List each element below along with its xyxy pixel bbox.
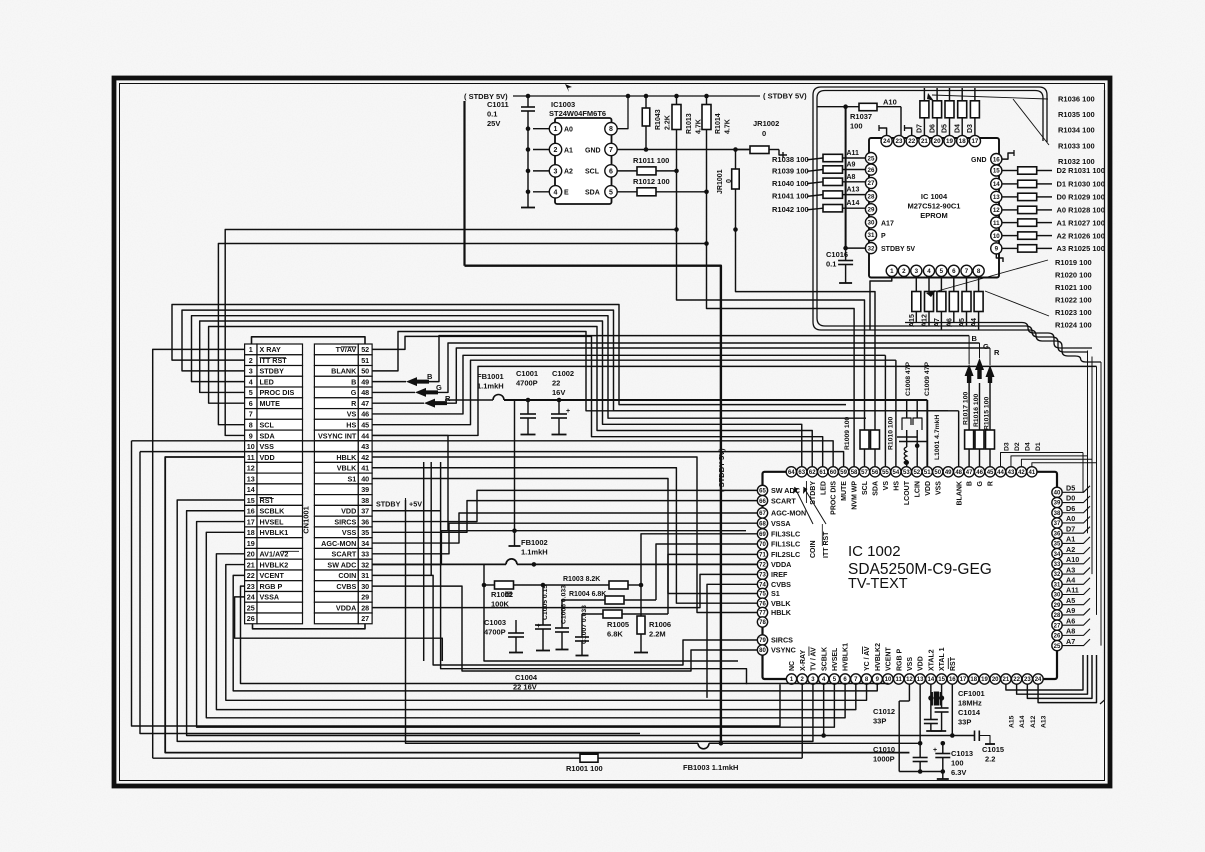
pin IC1004-5 <box>936 265 947 276</box>
svg-text:D2: D2 <box>1014 442 1021 451</box>
svg-text:G: G <box>977 480 984 486</box>
pin IC1002-57 <box>859 467 869 477</box>
svg-text:26: 26 <box>1054 634 1061 640</box>
pin IC1002-78 <box>757 617 767 627</box>
svg-text:C1015: C1015 <box>982 745 1004 754</box>
svg-text:58: 58 <box>851 470 858 476</box>
pin IC1002-36 <box>1052 528 1062 538</box>
wire row34 AGC-MON to pin67 <box>372 513 757 543</box>
pin IC1004-18 <box>957 135 968 146</box>
pin IC1003-2 <box>549 143 561 155</box>
svg-text:5: 5 <box>249 388 253 397</box>
svg-text:24: 24 <box>1035 677 1042 683</box>
svg-text:44: 44 <box>361 431 369 440</box>
svg-text:4700P: 4700P <box>516 379 538 388</box>
pin IC1004-17 <box>969 135 980 146</box>
pin IC1002-49 <box>943 467 953 477</box>
svg-text:C1002: C1002 <box>552 369 574 378</box>
svg-text:VCENT: VCENT <box>886 647 893 671</box>
svg-text:TV-TEXT: TV-TEXT <box>848 576 908 592</box>
pin IC1002-56 <box>870 467 880 477</box>
resistor EPROM bottom (net A4) <box>978 276 980 291</box>
svg-text:12: 12 <box>906 677 913 683</box>
pin IC1002-23 <box>1022 674 1032 684</box>
resistor R1037 <box>817 106 859 108</box>
svg-text:R1017 100: R1017 100 <box>962 392 969 425</box>
svg-text:VSSA: VSSA <box>260 593 280 602</box>
svg-text:30: 30 <box>868 220 875 227</box>
resistor EPROM address A9 <box>823 166 843 173</box>
wire CN row1 X RAY long loop <box>153 349 245 758</box>
svg-text:FIL2SLC: FIL2SLC <box>771 550 800 559</box>
resistor R1025 <box>1002 247 1018 249</box>
pin IC1004-1 <box>886 265 897 276</box>
svg-text:24: 24 <box>247 593 255 602</box>
pin IC1002-29 <box>1052 600 1062 610</box>
svg-text:HBLK: HBLK <box>336 453 357 462</box>
svg-text:100: 100 <box>850 122 863 131</box>
svg-text:25V: 25V <box>487 119 500 128</box>
svg-text:COIN: COIN <box>338 571 356 580</box>
wire CN row8 SCL up <box>218 244 706 425</box>
pin IC1002-50 <box>933 467 943 477</box>
jumper JR1001 <box>735 150 737 170</box>
net STDBY 5V rail <box>513 95 760 97</box>
svg-text:25: 25 <box>1054 644 1061 650</box>
svg-text:A3 R1025 100: A3 R1025 100 <box>1057 244 1105 253</box>
resistor R1029 <box>1002 196 1018 198</box>
label net flag A2 at pin 34 <box>1062 547 1090 554</box>
svg-text:A7: A7 <box>1066 637 1075 646</box>
svg-text:69: 69 <box>759 532 766 538</box>
pin IC1002-48 <box>954 467 964 477</box>
svg-text:A11: A11 <box>847 150 860 157</box>
svg-text:FIL3SLC: FIL3SLC <box>771 530 800 539</box>
svg-text:6: 6 <box>952 268 956 275</box>
pin IC1003-3 <box>549 165 561 177</box>
svg-text:XTAL2: XTAL2 <box>928 649 935 671</box>
svg-text:STDBY 5V: STDBY 5V <box>881 246 915 253</box>
resistor EPROM bottom (net A6) <box>953 276 955 291</box>
svg-text:2.2: 2.2 <box>985 755 995 764</box>
svg-text:A9: A9 <box>847 162 856 169</box>
svg-text:40: 40 <box>1054 490 1061 496</box>
pin IC1004-25 <box>865 153 876 164</box>
pin IC1002-40 <box>1052 487 1062 497</box>
svg-text:R: R <box>445 394 451 403</box>
svg-text:B: B <box>972 334 978 343</box>
svg-text:SIRCS: SIRCS <box>334 517 356 526</box>
pin IC1002-25 <box>1052 640 1062 650</box>
svg-text:HVBLK1: HVBLK1 <box>843 643 850 671</box>
pin IC1002-24 <box>1033 674 1043 684</box>
svg-text:VSS: VSS <box>935 481 942 495</box>
wire IC1004 pin1 down to loop <box>870 276 892 330</box>
svg-text:AGC-MON: AGC-MON <box>771 509 806 518</box>
svg-text:36: 36 <box>1054 531 1061 537</box>
wire STDBY +5V drops <box>406 500 408 743</box>
svg-text:R1016 100: R1016 100 <box>973 394 980 427</box>
pin IC1002-35 <box>1052 538 1062 548</box>
svg-text:32: 32 <box>868 245 875 252</box>
pin IC1002-53 <box>901 467 911 477</box>
node C1011 bus dots <box>526 126 531 131</box>
svg-text:B: B <box>967 481 974 486</box>
svg-text:31: 31 <box>361 571 369 580</box>
pin IC1004-30 <box>865 217 876 228</box>
svg-text:27: 27 <box>868 180 875 187</box>
pin IC1002-62 <box>807 467 817 477</box>
wire pin22 NC hook <box>905 128 912 136</box>
wire SDA from IC1003 down <box>707 192 855 467</box>
pin IC1002-22 <box>1011 674 1021 684</box>
svg-text:VS: VS <box>347 410 357 419</box>
svg-text:26: 26 <box>868 167 875 174</box>
capacitor C1014 on XTAL1 <box>935 707 949 709</box>
svg-text:37: 37 <box>1054 521 1061 527</box>
resistor EPROM bottom (net A7) <box>940 276 942 291</box>
resistor R1001 <box>153 757 580 759</box>
svg-text:A1 R1027 100: A1 R1027 100 <box>1057 218 1105 227</box>
arrow net R at CN pin47 <box>372 402 424 404</box>
pin IC1004-19 <box>944 135 955 146</box>
pin IC1002-6 <box>840 674 850 684</box>
svg-text:52: 52 <box>361 345 369 354</box>
pin IC1002-74 <box>757 579 767 589</box>
svg-text:33P: 33P <box>873 717 886 726</box>
svg-text:46: 46 <box>361 410 369 419</box>
svg-text:49: 49 <box>945 470 952 476</box>
svg-text:14: 14 <box>993 181 1000 188</box>
overline YC/AV pin8 <box>862 647 864 655</box>
pin IC1002-69 <box>757 529 767 539</box>
svg-text:15: 15 <box>247 496 255 505</box>
wire IC1003 pin7 GND line <box>618 149 750 151</box>
svg-text:D4: D4 <box>954 124 961 133</box>
svg-text:11: 11 <box>247 453 255 462</box>
svg-text:78: 78 <box>759 620 766 626</box>
svg-text:3: 3 <box>249 367 253 376</box>
svg-text:SCART: SCART <box>332 550 357 559</box>
svg-text:80: 80 <box>759 648 766 654</box>
svg-text:ITT RST: ITT RST <box>823 531 830 558</box>
IC U IC1002 body <box>763 472 1058 679</box>
svg-text:( STDBY 5V): ( STDBY 5V) <box>763 92 807 101</box>
svg-text:D1: D1 <box>1035 442 1042 451</box>
svg-text:36: 36 <box>361 517 369 526</box>
capacitor C1011 <box>527 96 529 107</box>
svg-text:D3: D3 <box>967 124 974 133</box>
resistor R1016 <box>975 430 984 449</box>
svg-text:VSYNC: VSYNC <box>771 646 796 655</box>
svg-text:PROC DIS: PROC DIS <box>260 388 295 397</box>
svg-text:2: 2 <box>249 356 253 365</box>
svg-text:21: 21 <box>1003 677 1010 683</box>
pin IC1004-26 <box>865 164 876 175</box>
svg-text:65: 65 <box>759 489 766 495</box>
svg-text:R: R <box>351 399 357 408</box>
wire IC1003 pin8 to rail <box>618 96 629 129</box>
svg-text:PROC DIS: PROC DIS <box>831 481 838 515</box>
svg-text:A2: A2 <box>564 169 573 176</box>
svg-text:A10: A10 <box>1066 555 1079 564</box>
ground mark small <box>505 592 512 597</box>
pin IC1002-1 <box>786 674 796 684</box>
wire bottom resistor collector <box>905 323 1092 349</box>
resistor R1027 <box>1002 222 1018 224</box>
svg-text:C1014: C1014 <box>958 708 981 717</box>
svg-text:BLANK: BLANK <box>956 481 963 506</box>
resistor EPROM bottom (net A12) <box>928 276 930 291</box>
svg-text:22: 22 <box>247 571 255 580</box>
svg-text:72: 72 <box>759 563 766 569</box>
svg-text:18: 18 <box>970 677 977 683</box>
svg-text:A9: A9 <box>1066 606 1075 615</box>
pin IC1004-32 <box>865 243 876 254</box>
svg-text:S1: S1 <box>771 589 780 598</box>
pin IC1004-15 <box>991 165 1002 176</box>
svg-text:7: 7 <box>965 268 969 275</box>
svg-text:6: 6 <box>609 168 613 175</box>
arrow net B up <box>968 383 970 430</box>
pin IC1004-24 <box>881 135 892 146</box>
svg-text:57: 57 <box>861 470 868 476</box>
svg-text:EPROM: EPROM <box>920 211 948 220</box>
svg-text:29: 29 <box>868 207 875 214</box>
svg-text:R1043: R1043 <box>655 109 662 130</box>
pin IC1002-7 <box>851 674 861 684</box>
svg-text:35: 35 <box>361 528 369 537</box>
svg-text:SDA: SDA <box>873 481 880 496</box>
svg-text:B: B <box>427 372 433 381</box>
svg-text:XTAL 1: XTAL 1 <box>939 647 946 671</box>
svg-text:HS: HS <box>346 421 356 430</box>
svg-text:71: 71 <box>759 553 766 559</box>
svg-text:IC1003: IC1003 <box>551 100 575 109</box>
pin IC1002-52 <box>912 467 922 477</box>
svg-text:A15: A15 <box>1008 715 1015 728</box>
svg-text:32: 32 <box>1054 572 1061 578</box>
svg-text:43: 43 <box>361 442 369 451</box>
svg-text:30: 30 <box>361 582 369 591</box>
label net flag D7 at pin 36 <box>1062 527 1090 534</box>
arrow net G at CN pin48 <box>372 391 415 393</box>
svg-text:R1003 8.2K: R1003 8.2K <box>563 576 600 583</box>
op-amp/IC U IC1003 body <box>555 118 612 204</box>
wire bus row50 BLANK <box>372 332 958 411</box>
pin IC1002-5 <box>829 674 839 684</box>
svg-text:LED: LED <box>260 377 274 386</box>
svg-text:2: 2 <box>902 268 906 275</box>
resistor R1035 (net D6) <box>936 88 938 101</box>
pin IC1002-19 <box>979 674 989 684</box>
svg-text:18: 18 <box>247 528 255 537</box>
wire VSS pin12 down <box>908 684 910 701</box>
svg-text:STDBY: STDBY <box>376 500 401 509</box>
svg-text:67: 67 <box>759 511 766 517</box>
svg-text:STDBY: STDBY <box>260 367 285 376</box>
pin IC1002-26 <box>1052 630 1062 640</box>
connector CN1001 left column cells <box>245 344 303 624</box>
svg-text:46: 46 <box>976 470 983 476</box>
capacitor C1001 <box>526 398 531 403</box>
wire row30 CVBS to pin80 <box>372 586 757 671</box>
svg-text:NC: NC <box>789 661 796 671</box>
wire thick STDBY to bottom <box>465 266 721 742</box>
capacitor LC plates <box>897 436 917 438</box>
svg-text:RST: RST <box>950 656 957 671</box>
pin IC1002-46 <box>974 467 984 477</box>
capacitor C1012 on XTAL2 <box>924 719 938 721</box>
svg-text:R1033 100: R1033 100 <box>1058 141 1095 150</box>
svg-text:23: 23 <box>247 582 255 591</box>
svg-text:SW ADC: SW ADC <box>327 560 356 569</box>
svg-text:LED: LED <box>820 481 827 495</box>
pin IC1002-70 <box>757 539 767 549</box>
overline STDBY pin62 <box>805 481 807 503</box>
svg-text:R1024 100: R1024 100 <box>1055 320 1092 329</box>
capacitor C1002 (polarized) <box>557 398 562 403</box>
svg-text:C1001: C1001 <box>516 369 538 378</box>
svg-text:R1019 100: R1019 100 <box>1055 258 1092 267</box>
svg-text:+: + <box>933 747 937 754</box>
svg-text:A4: A4 <box>1066 575 1075 584</box>
resistor EPROM address A13 <box>823 191 843 198</box>
arrow net R up <box>989 383 991 430</box>
pin IC1002-51 <box>922 467 932 477</box>
svg-text:AGC-MON: AGC-MON <box>321 539 356 548</box>
arrow mark top center <box>565 84 572 92</box>
wire row31 COIN to pin79 <box>372 575 757 665</box>
svg-text:A8: A8 <box>1066 627 1075 636</box>
svg-text:9: 9 <box>995 246 999 253</box>
resistor R1031 <box>1002 170 1018 172</box>
wire bus CN rows 15-23 bottom nest <box>177 500 813 741</box>
resistor bank R1038-R1042 stub diagonals <box>807 158 823 160</box>
resistor R1017 <box>965 430 974 449</box>
svg-text:50: 50 <box>361 367 369 376</box>
svg-text:R1006: R1006 <box>649 620 671 629</box>
svg-text:R1036 100: R1036 100 <box>1058 95 1095 104</box>
svg-text:VDD: VDD <box>925 481 932 496</box>
wire bus CN rows 2-6 up-over nest <box>172 305 846 405</box>
svg-text:8: 8 <box>249 421 253 430</box>
svg-text:TV / AV: TV / AV <box>811 647 818 671</box>
label net flag A4 at pin 31 <box>1062 578 1090 585</box>
svg-text:C1006 0.033: C1006 0.033 <box>561 585 568 624</box>
resistor R1014 <box>706 96 708 108</box>
svg-text:56: 56 <box>872 470 879 476</box>
pin IC1002-80 <box>757 645 767 655</box>
svg-text:63: 63 <box>798 470 805 476</box>
wire VDDA thick to pin72 <box>372 563 506 565</box>
svg-text:20: 20 <box>247 550 255 559</box>
svg-text:18: 18 <box>959 138 966 145</box>
svg-text:25: 25 <box>868 155 875 162</box>
wire net B from CN to right loop <box>429 336 969 382</box>
label net flag A5 at pin 29 <box>1062 598 1090 605</box>
capacitor C1003 <box>515 627 517 633</box>
pin IC1002-44 <box>995 467 1005 477</box>
pin IC1002-31 <box>1052 579 1062 589</box>
pin IC1003-5 <box>605 186 617 198</box>
svg-text:D7: D7 <box>917 124 924 133</box>
svg-text:10: 10 <box>993 233 1000 240</box>
wire pin16 NC hook <box>1002 153 1014 159</box>
pin IC1002-41 <box>1027 467 1037 477</box>
svg-text:15: 15 <box>938 677 945 683</box>
svg-text:29: 29 <box>1054 603 1061 609</box>
svg-text:R1022 100: R1022 100 <box>1055 295 1092 304</box>
svg-text:FB1003 1.1mkH: FB1003 1.1mkH <box>683 763 738 772</box>
svg-text:HVBLK2: HVBLK2 <box>260 560 289 569</box>
resistor R1015 <box>986 430 995 449</box>
pin IC1002-75 <box>757 588 767 598</box>
svg-text:16: 16 <box>247 507 255 516</box>
svg-text:42: 42 <box>1018 470 1025 476</box>
svg-text:19: 19 <box>981 677 988 683</box>
svg-text:2: 2 <box>554 147 558 154</box>
label net flag A8 at pin 26 <box>1062 629 1090 636</box>
svg-text:A1: A1 <box>564 147 573 154</box>
resistor R1043 <box>645 96 647 108</box>
wire loop around IC1004 outer <box>813 87 1101 362</box>
resistor R1004 <box>562 599 605 601</box>
svg-text:33P: 33P <box>958 718 971 727</box>
svg-text:VBLK: VBLK <box>771 599 791 608</box>
label net flag A10 at pin 33 <box>1062 557 1090 564</box>
svg-text:R1011 100: R1011 100 <box>633 156 669 165</box>
pin IC1004-6 <box>948 265 959 276</box>
svg-text:MUTE: MUTE <box>260 399 281 408</box>
svg-text:23: 23 <box>1024 677 1031 683</box>
label net flag A6 at pin 27 <box>1062 619 1090 626</box>
svg-text:YC / AV: YC / AV <box>864 646 871 671</box>
pin IC1004-31 <box>865 229 876 240</box>
svg-text:B: B <box>351 377 356 386</box>
svg-text:G: G <box>436 383 442 392</box>
pin IC1003-8 <box>605 123 617 135</box>
pin IC1004-27 <box>865 177 876 188</box>
pin IC1004-8 <box>973 265 984 276</box>
svg-text:51: 51 <box>361 356 369 365</box>
wire R1004 net to pin70 FIL1SLC <box>656 544 757 600</box>
arrow COIN to pin64 <box>795 487 814 524</box>
pin IC1004-11 <box>991 217 1002 228</box>
svg-text:D7: D7 <box>1066 524 1075 533</box>
pin IC1002-79 <box>757 635 767 645</box>
resistor R1034 (net D5) <box>949 88 951 101</box>
svg-text:39: 39 <box>361 485 369 494</box>
svg-text:A10: A10 <box>883 98 897 107</box>
resistor R1011 <box>618 170 638 172</box>
pin IC1002-65 <box>757 485 767 495</box>
svg-text:A6: A6 <box>1066 616 1075 625</box>
svg-text:4700P: 4700P <box>484 628 506 637</box>
svg-text:A1: A1 <box>1066 535 1075 544</box>
wire D3 D2 D4 D1 stubs <box>1001 453 1084 467</box>
svg-text:L1001 4.7mkH: L1001 4.7mkH <box>934 415 941 460</box>
svg-text:A12: A12 <box>922 314 929 327</box>
resistor R1003 <box>543 584 609 586</box>
pin IC1002-17 <box>958 674 968 684</box>
svg-text:50: 50 <box>934 470 941 476</box>
svg-text:31: 31 <box>1054 582 1061 588</box>
svg-text:HVSEL: HVSEL <box>832 647 839 671</box>
capacitor C1013 (polarized) <box>941 741 946 746</box>
svg-text:BLANK: BLANK <box>331 367 357 376</box>
connector CN1001 right column cells <box>314 344 372 624</box>
